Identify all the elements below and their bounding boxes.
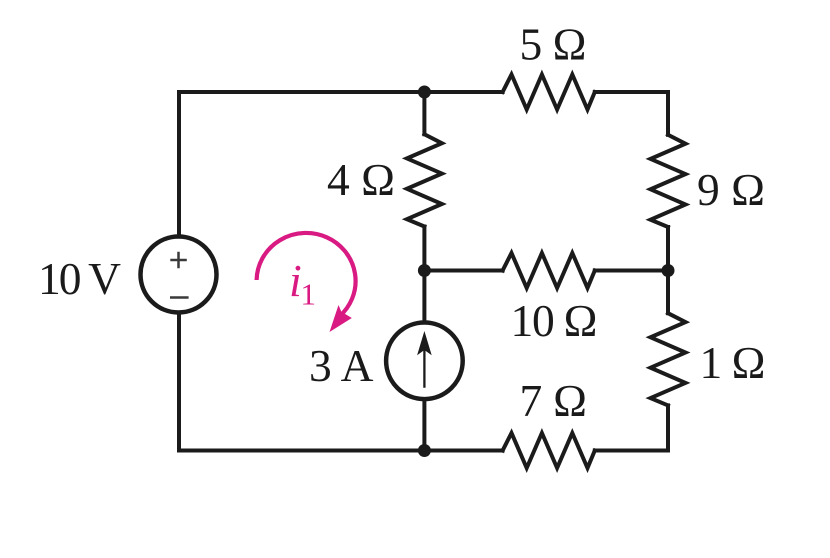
wire current source to node D [422,399,426,451]
resistor 5 ohm [503,75,595,110]
current source I1 circle [386,323,463,400]
wire node C to 1-ohm resistor [666,271,670,314]
voltage source minus sign [170,296,189,299]
wire bottom rail middle segment [424,449,502,453]
wire 4-ohm resistor to node B [422,227,426,271]
svg-text:7 Ω: 7 Ω [520,375,588,426]
current source arrow shaft [423,342,425,387]
svg-text:4 Ω: 4 Ω [327,154,395,205]
svg-text:1 Ω: 1 Ω [700,337,766,388]
node C junction dot [662,264,675,277]
node B junction dot [418,264,431,277]
wire node A to 4-ohm resistor [422,92,426,134]
wire node B to current source [422,271,426,323]
wire middle rail right segment [595,269,668,273]
wire top rail left segment [179,90,424,94]
wire left rail lower [177,313,181,451]
current source arrow head [417,331,432,355]
wire left rail upper [177,92,181,236]
wire 9-ohm resistor to node C [666,227,670,271]
wire bottom rail right segment [595,449,668,453]
svg-text:5 Ω: 5 Ω [520,18,587,69]
resistor 1 ohm [651,313,686,405]
voltage source V1 circle [141,237,217,313]
svg-text:10 Ω: 10 Ω [511,295,598,346]
resistor 7 ohm [503,433,595,468]
wire top rail from node A to 5-ohm resistor [424,90,502,94]
mesh current i1 arc [257,233,356,317]
wire bottom rail left segment [179,449,424,453]
resistor 10 ohm [503,253,595,288]
wire middle rail left segment [424,269,502,273]
voltage source plus sign [170,252,187,269]
wire top rail right segment [595,90,668,94]
wire 1-ohm resistor to bottom right corner [666,405,670,450]
node A junction dot [418,86,431,99]
wire right rail upper [666,92,670,135]
resistor 9 ohm [651,135,686,227]
svg-text:3 A: 3 A [309,340,374,391]
mesh current i1 arrow head [330,305,352,332]
node D junction dot [418,444,431,457]
svg-text:10 V: 10 V [38,253,121,304]
svg-text:9 Ω: 9 Ω [697,164,765,215]
resistor 4 ohm [407,134,442,226]
svg-text:1: 1 [301,277,317,312]
